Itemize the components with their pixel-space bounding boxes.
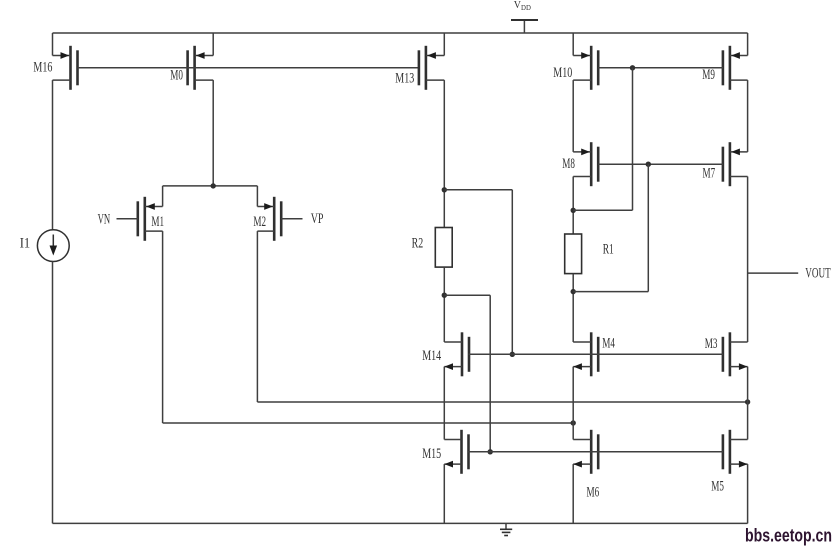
node: tail junction <box>211 183 216 188</box>
wire: gate bus M14-M4-M3 <box>468 353 723 355</box>
VDD supply rail (top) <box>53 32 748 34</box>
svg-text:M4: M4 <box>602 335 615 351</box>
wire: gate bus M10-M9 <box>598 67 723 69</box>
transistor M4 <box>573 332 598 376</box>
svg-text:M3: M3 <box>705 336 718 352</box>
wire: M2 drain down <box>256 231 258 402</box>
transistor M3 <box>723 332 748 376</box>
wire: M4 source down to M6 drain <box>572 367 574 440</box>
wire: M16 drain down to I1 <box>52 80 54 230</box>
current source I1 <box>37 230 69 262</box>
svg-text:VP: VP <box>311 211 324 227</box>
wire: top rail to M0 source <box>212 33 214 56</box>
svg-text:R2: R2 <box>412 235 424 251</box>
transistor M9 <box>723 46 748 90</box>
svg-text:VOUT: VOUT <box>805 265 831 281</box>
node: M10/M9 gate junction <box>630 65 635 70</box>
resistor R2 <box>435 228 452 268</box>
transistor M15 <box>444 430 468 474</box>
svg-text:bbs.eetop.cn: bbs.eetop.cn <box>745 526 832 546</box>
wire: M2 drain to M3/M5 column <box>257 401 747 403</box>
wire: M14 source down to M15 drain <box>443 367 445 440</box>
wire: R1 bottom to M4 <box>572 274 574 342</box>
wire: VOUT lead <box>748 272 799 274</box>
resistor R1 <box>565 234 582 274</box>
transistor M14 <box>444 332 469 376</box>
wire: M7 drain down to M3 <box>747 177 749 343</box>
wire: gate bus M8-M7 <box>598 163 723 165</box>
wire: top rail to M13 source <box>443 33 445 56</box>
wire: M15 source to ground rail <box>443 464 445 523</box>
wire: M10 drain to M8 source <box>572 80 574 152</box>
transistor M10 <box>573 46 598 90</box>
wire: R1 top branch to M10/M9 gates <box>573 209 632 211</box>
wire: gate bus M16-M0-M13 <box>78 67 419 69</box>
svg-text:VN: VN <box>98 211 111 227</box>
svg-text:M5: M5 <box>711 479 724 495</box>
wire: M3 source down to M5 drain <box>747 367 749 440</box>
ground symbol <box>500 523 512 535</box>
transistor M0 <box>188 46 214 90</box>
svg-text:I1: I1 <box>20 236 31 252</box>
wire: I1 to ground rail <box>52 262 54 524</box>
wire: tail to M1 source <box>162 186 164 207</box>
svg-text:M2: M2 <box>253 214 266 230</box>
wire: R1 bottom branch to M8/M7 gates <box>573 291 648 293</box>
wire: M6 source to ground rail <box>572 464 574 523</box>
wire: top rail to M10 source <box>572 33 574 56</box>
node: junction at M4-M6 link <box>571 420 576 425</box>
svg-text:M13: M13 <box>395 71 414 87</box>
svg-text:M6: M6 <box>587 484 600 500</box>
ground rail (bottom) <box>53 522 748 524</box>
wire: VP gate lead <box>281 218 302 220</box>
wire: branch down to M15 gate <box>489 295 491 452</box>
wire: VN gate lead <box>117 218 138 220</box>
wire: R2 top branch horizontal <box>444 189 512 191</box>
wire: M13 drain to R2 <box>443 80 445 227</box>
svg-text:M15: M15 <box>422 446 441 462</box>
svg-text:M10: M10 <box>553 65 572 81</box>
wire: R2 bottom to M14 drain <box>443 267 445 342</box>
svg-text:R1: R1 <box>603 242 614 258</box>
wire: tail node horizontal <box>163 185 258 187</box>
wire: M1 drain down <box>162 231 164 423</box>
wire: gate bus M15-M6-M5 <box>468 451 723 453</box>
transistor M6 <box>573 430 598 474</box>
wire: M9 drain to M7 source <box>747 80 749 152</box>
node: R2 top branch <box>442 187 447 192</box>
svg-text:M9: M9 <box>702 67 715 83</box>
wire: M5 source to ground rail <box>747 464 749 523</box>
svg-text:M16: M16 <box>33 60 52 76</box>
wire: top rail to M9 source <box>747 33 749 56</box>
transistor M8 <box>573 142 598 186</box>
svg-text:M8: M8 <box>562 156 575 172</box>
node: R1 top branch <box>571 208 576 213</box>
node: M8/M7 gate junction <box>646 162 651 167</box>
node: R2 bottom branch <box>442 293 447 298</box>
node: M15 gate junction <box>488 449 493 454</box>
node: M14 gate junction <box>510 352 515 357</box>
wire: R2 bottom branch horizontal <box>444 294 490 296</box>
VDD symbol <box>511 20 538 33</box>
transistor M1 <box>138 197 163 241</box>
svg-text:M1: M1 <box>151 214 164 230</box>
transistor M13 <box>419 46 444 90</box>
svg-text:M0: M0 <box>170 68 183 84</box>
svg-text:M7: M7 <box>703 166 716 182</box>
wire: top rail to M16 source <box>52 33 54 56</box>
transistor M2 <box>257 197 281 241</box>
svg-text:M14: M14 <box>422 348 442 364</box>
transistor M5 <box>723 430 748 474</box>
node: R1 bottom branch <box>571 289 576 294</box>
wire: branch down to M14 gate <box>511 190 513 354</box>
wire: M1 drain to M4/M6 column <box>163 422 574 424</box>
transistor M7 <box>723 142 748 186</box>
wire: tail to M2 source <box>256 186 258 207</box>
wire: M8 drain to R1 <box>572 177 574 235</box>
wire: M0 drain to diff pair tail <box>212 80 214 186</box>
node: junction at M3-M5 link <box>745 399 750 404</box>
transistor M16 <box>53 46 78 90</box>
